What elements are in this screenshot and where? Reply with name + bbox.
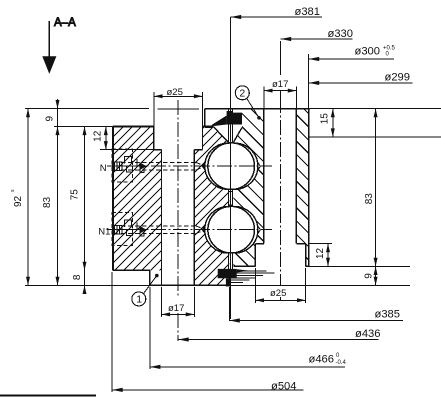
inter-ball gap connectors bbox=[229, 191, 233, 193]
balloon 1 bbox=[132, 292, 146, 306]
outer ring counterbore top bbox=[255, 243, 264, 245]
hatch inner ring right panel (/) bbox=[22, 100, 429, 300]
svg-text:ø504: ø504 bbox=[271, 380, 297, 392]
dimension 300 line bbox=[309, 58, 394, 60]
outer ring counterbore walls bbox=[254, 244, 256, 267]
bottom dim 25 bbox=[254, 268, 256, 303]
hatch outer ring main (\) bbox=[0, 80, 441, 300]
grease channel N1 (dashed) bbox=[121, 225, 196, 227]
svg-text:ø381: ø381 bbox=[295, 6, 321, 18]
svg-text:0: 0 bbox=[386, 52, 390, 58]
grease nipple N dashed box bbox=[112, 149, 132, 182]
svg-text:ø25: ø25 bbox=[167, 87, 183, 98]
dimension 25 top bbox=[154, 95, 203, 97]
left dim line 92 bbox=[27, 109, 29, 286]
grease channel N (dashed) bbox=[121, 162, 196, 164]
seal top (black) bbox=[227, 111, 242, 125]
dimension 25 top extension lines bbox=[153, 92, 155, 127]
dim 466 bbox=[149, 287, 151, 369]
svg-text:ø17: ø17 bbox=[272, 79, 288, 90]
hatch inner ring (left, /) bbox=[0, 100, 357, 300]
svg-text:ø385: ø385 bbox=[375, 308, 401, 320]
svg-text:2: 2 bbox=[239, 88, 245, 100]
dim 385 bbox=[228, 287, 230, 321]
section arrow line bbox=[48, 21, 50, 58]
top surface line outer ring bbox=[25, 108, 149, 110]
outer ring right wall bbox=[308, 54, 310, 109]
ball 1 bbox=[208, 143, 255, 190]
seal bottom whiskers bbox=[227, 271, 275, 283]
ball 2 bbox=[208, 206, 255, 253]
svg-text:83: 83 bbox=[42, 196, 53, 208]
dimension 299 line bbox=[309, 82, 413, 84]
grease nipple N1 symbol bbox=[113, 220, 147, 236]
svg-text:ø25: ø25 bbox=[270, 288, 286, 299]
dim 330 extension bbox=[280, 41, 282, 75]
svg-text:1: 1 bbox=[136, 294, 142, 306]
svg-text:ø299: ø299 bbox=[385, 72, 411, 84]
outer ring bolt hole walls bbox=[263, 109, 265, 243]
dim 436 bbox=[178, 339, 378, 341]
svg-text:N1: N1 bbox=[98, 227, 110, 238]
svg-text:9: 9 bbox=[45, 116, 56, 122]
right dim 15 bbox=[332, 109, 334, 137]
svg-text:12: 12 bbox=[315, 247, 326, 259]
bottom dim 17 bbox=[161, 287, 163, 317]
outer ring lip bbox=[204, 109, 206, 128]
dim 504 bbox=[111, 272, 113, 392]
balloon 2 bbox=[235, 86, 249, 100]
grease nipple N1 dashed box bbox=[112, 213, 132, 246]
outer ring chamfer above ball bbox=[233, 128, 242, 143]
svg-text:ø466: ø466 bbox=[309, 354, 335, 366]
balloon 2 leader bbox=[247, 98, 259, 118]
right dim 83 bbox=[375, 109, 377, 267]
right dim 9 bbox=[375, 266, 377, 285]
svg-text:83: 83 bbox=[364, 193, 375, 205]
svg-text:ø330: ø330 bbox=[328, 28, 354, 40]
left dim line 9+83 bbox=[57, 99, 59, 285]
seal bottom (black) bbox=[218, 269, 237, 278]
svg-text:ø17: ø17 bbox=[168, 303, 184, 314]
right dim 12 bbox=[327, 244, 329, 267]
hatch outer ring wall (\) bbox=[0, 80, 441, 300]
outer ring bottom bbox=[233, 265, 255, 267]
svg-text:N: N bbox=[100, 163, 107, 174]
bolt hole centerline right (dash-dot) bbox=[280, 98, 282, 286]
left dim line 12 (counterbore depth) bbox=[105, 127, 107, 150]
svg-text:9: 9 bbox=[364, 273, 375, 279]
svg-text:-0.4: -0.4 bbox=[336, 360, 347, 366]
balloon 1 leader bbox=[144, 276, 157, 294]
inner ring counterbore walls bbox=[153, 127, 155, 150]
ring gap split lines bbox=[228, 109, 230, 144]
section arrow head bbox=[42, 56, 56, 74]
ball centerline 1 (dash-dot) bbox=[107, 165, 272, 167]
outer ring step 15 line bbox=[309, 136, 441, 138]
svg-text:ø300: ø300 bbox=[355, 46, 381, 58]
bottom surface step line bbox=[25, 284, 150, 286]
inner ring bolt hole walls bbox=[161, 150, 163, 286]
svg-text:A–A: A–A bbox=[54, 17, 76, 29]
svg-text:15: 15 bbox=[320, 113, 331, 125]
ball 1 cusp marks bbox=[202, 163, 205, 170]
dim 381 extension / ball contact line bbox=[230, 17, 232, 319]
dimension 17 top bbox=[264, 90, 297, 92]
grease nipple N symbol bbox=[113, 156, 147, 172]
ball 2 raceway arcs bbox=[205, 207, 230, 253]
dimension 17 top extension lines bbox=[263, 87, 265, 110]
ball 1 raceway arcs bbox=[205, 143, 230, 189]
svg-text:s: s bbox=[10, 189, 16, 192]
left dim line 75+8 bbox=[84, 127, 86, 294]
inner ring outline bbox=[112, 127, 114, 271]
dimension 381 line bbox=[231, 16, 322, 18]
svg-text:ø436: ø436 bbox=[355, 328, 381, 340]
svg-text:8: 8 bbox=[72, 274, 83, 280]
top surface line inner ring bbox=[54, 126, 113, 128]
svg-text:92: 92 bbox=[13, 195, 24, 207]
ball 2 cusp marks bbox=[202, 226, 205, 233]
svg-text:12: 12 bbox=[92, 130, 103, 142]
bolt hole centerline left (dash-dot) bbox=[177, 100, 179, 296]
inner ring chamfer to raceway bbox=[213, 127, 229, 144]
counterbore bottom extension line bbox=[100, 149, 154, 151]
section label A-A bbox=[54, 17, 76, 29]
dimension 330 line bbox=[281, 38, 353, 40]
svg-text:0: 0 bbox=[336, 353, 340, 359]
svg-text:75: 75 bbox=[70, 189, 81, 201]
ball centerline 2 (dash-dot) bbox=[107, 229, 272, 231]
frame line bottom left bbox=[0, 394, 96, 396]
